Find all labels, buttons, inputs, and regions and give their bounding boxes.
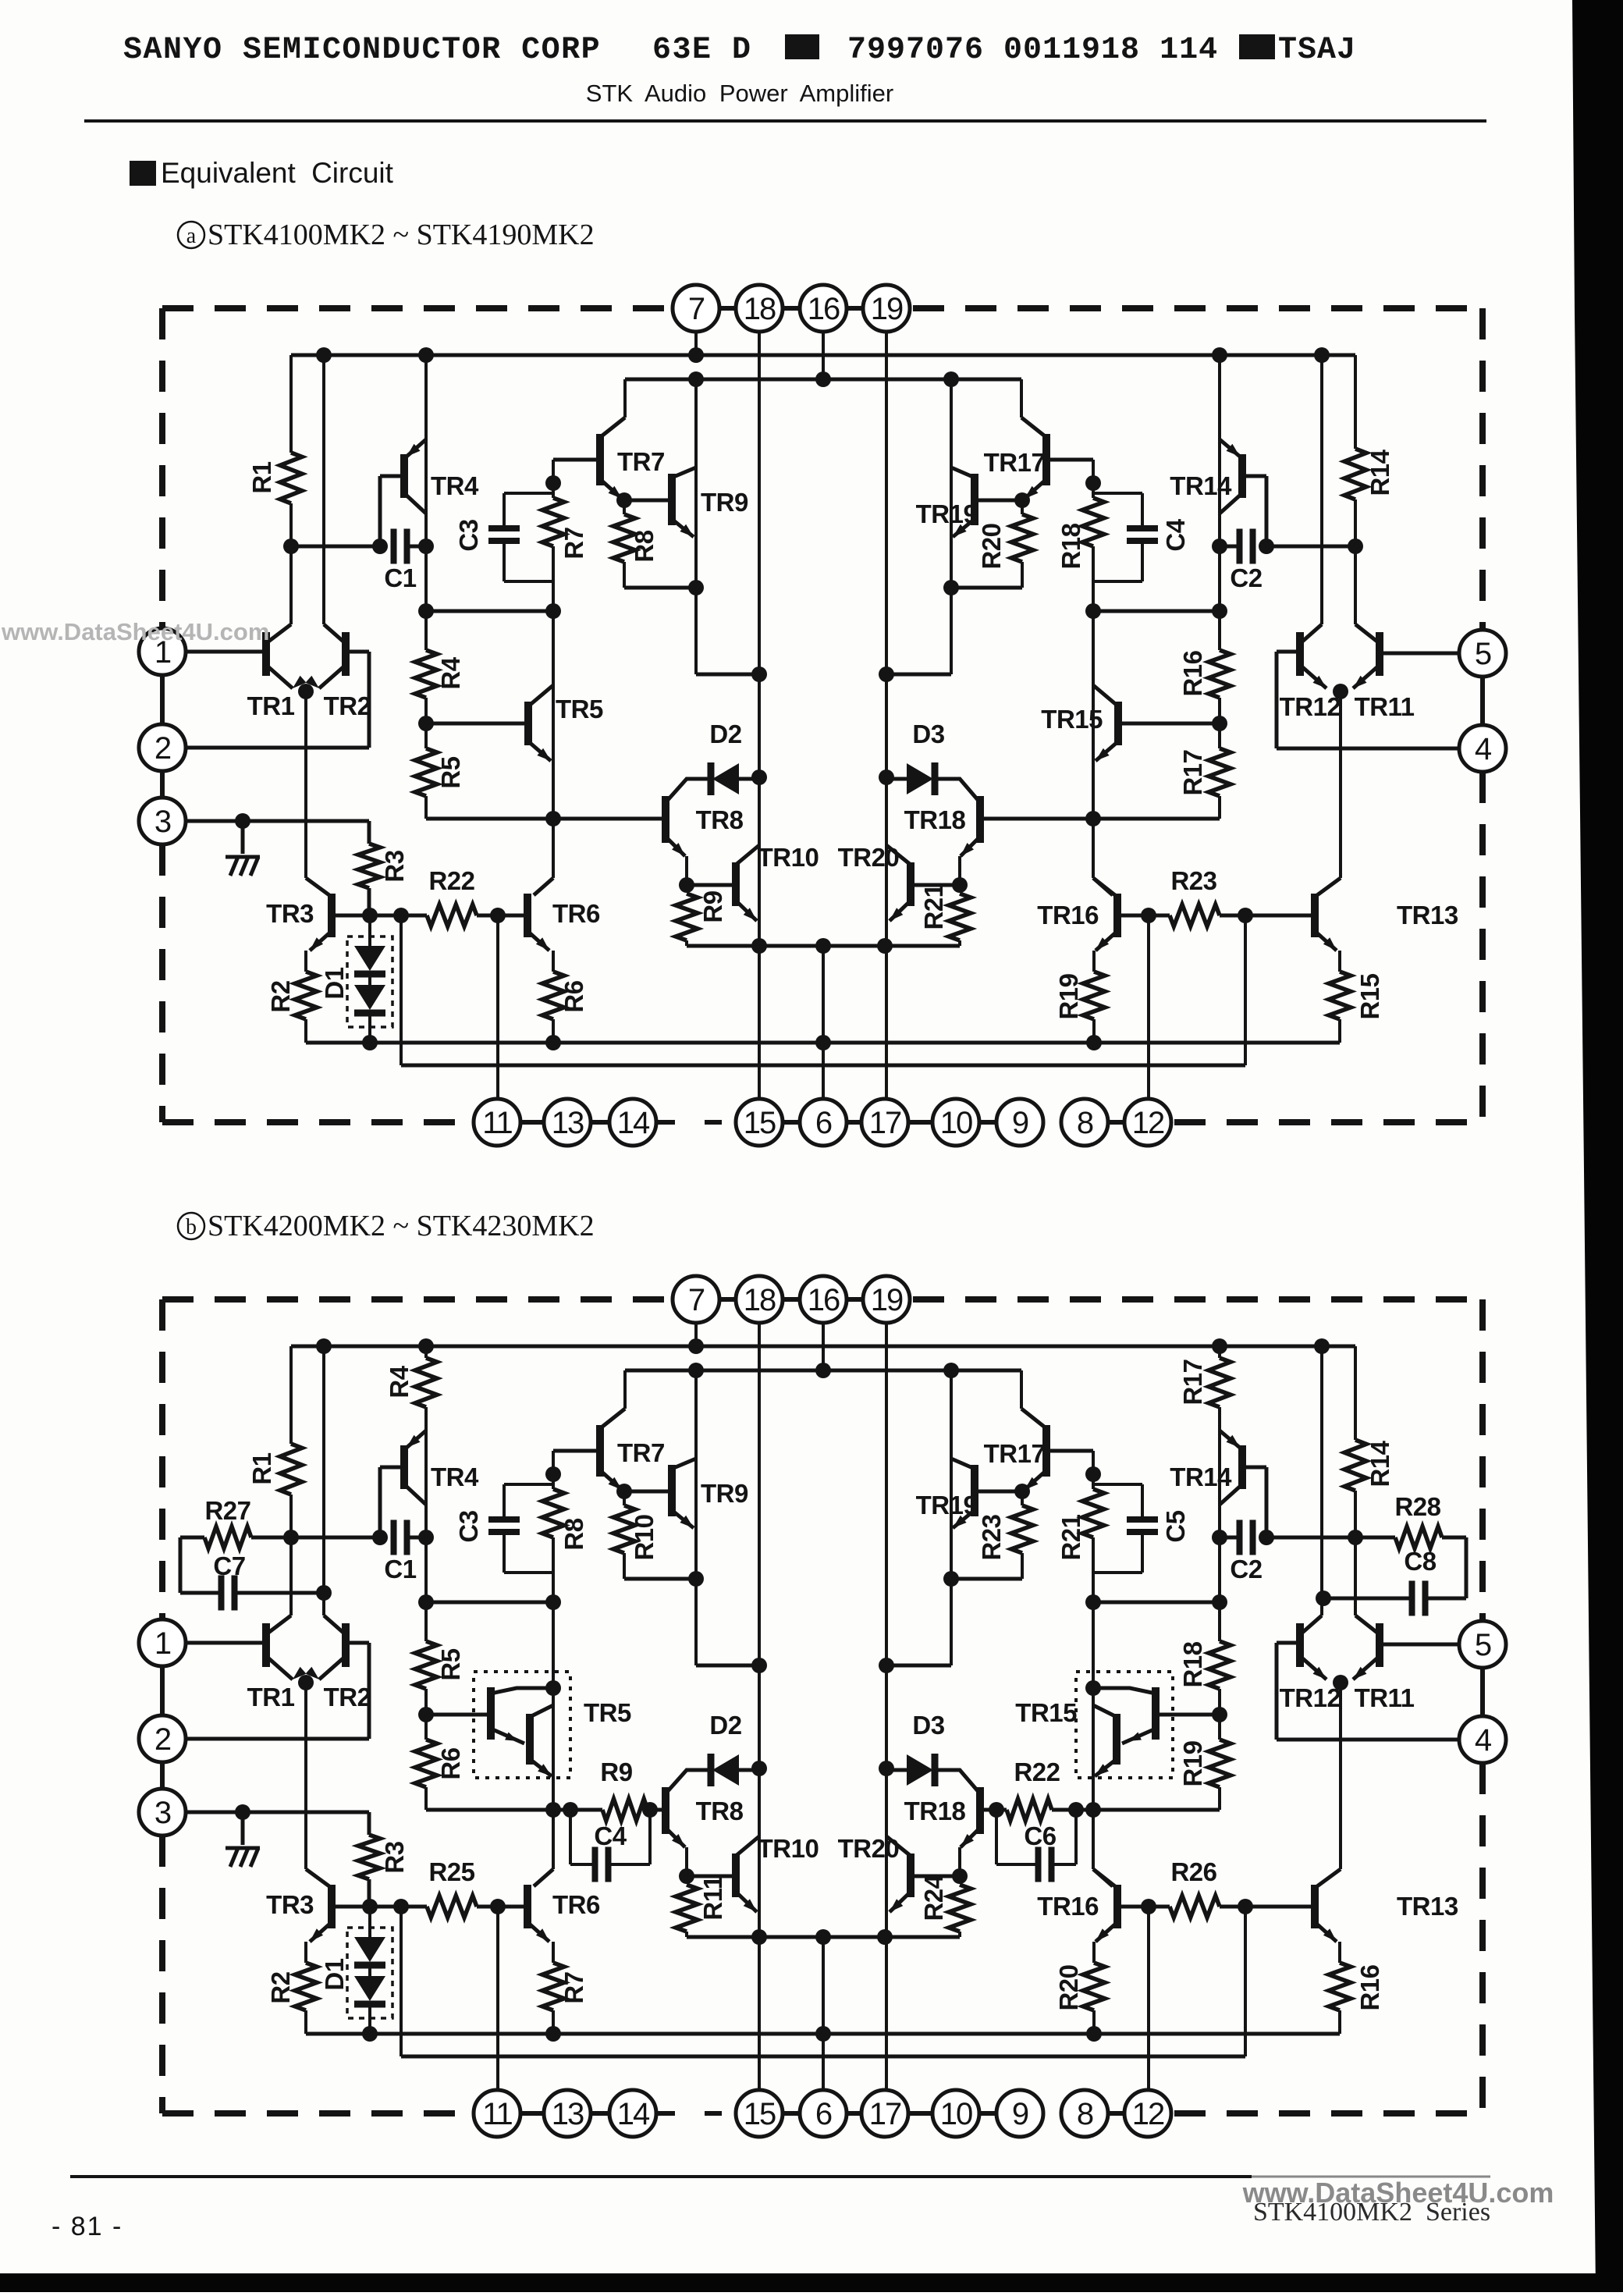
svg-text:- 81 -: - 81 - — [51, 2212, 123, 2241]
svg-text:TR8: TR8 — [696, 805, 744, 834]
svg-text:R19: R19 — [1178, 1740, 1207, 1786]
svg-text:C3: C3 — [454, 519, 483, 551]
svg-text:12: 12 — [1132, 2097, 1164, 2131]
svg-text:TR15: TR15 — [1015, 1698, 1077, 1727]
svg-text:2: 2 — [154, 731, 171, 766]
svg-text:TR3: TR3 — [266, 1890, 314, 1919]
svg-text:D2: D2 — [709, 1711, 741, 1740]
svg-text:16: 16 — [808, 1283, 840, 1317]
svg-text:R19: R19 — [1054, 973, 1083, 1019]
svg-text:C1: C1 — [384, 1555, 416, 1583]
svg-text:10: 10 — [940, 1106, 972, 1140]
svg-text:9: 9 — [1012, 2097, 1028, 2131]
svg-text:R11: R11 — [698, 1875, 727, 1920]
svg-text:6: 6 — [815, 1106, 832, 1140]
svg-text:15: 15 — [744, 2097, 776, 2131]
svg-text:R18: R18 — [1178, 1641, 1207, 1687]
svg-text:TR17: TR17 — [984, 448, 1046, 477]
svg-text:18: 18 — [744, 1283, 776, 1317]
svg-text:TR20: TR20 — [838, 1834, 900, 1863]
svg-text:4: 4 — [1475, 1723, 1492, 1758]
svg-text:TR18: TR18 — [904, 1797, 966, 1825]
svg-text:D2: D2 — [709, 720, 741, 748]
svg-text:R23: R23 — [1170, 866, 1216, 895]
svg-text:R22: R22 — [428, 866, 474, 895]
svg-text:R1: R1 — [247, 1452, 276, 1484]
svg-text:2: 2 — [154, 1722, 171, 1757]
svg-text:TR13: TR13 — [1397, 1892, 1458, 1921]
svg-text:D3: D3 — [912, 1711, 944, 1740]
svg-text:TR5: TR5 — [556, 695, 603, 723]
svg-text:6: 6 — [815, 2097, 832, 2131]
svg-text:R16: R16 — [1178, 650, 1207, 696]
svg-text:17: 17 — [869, 1106, 901, 1140]
svg-text:TR4: TR4 — [431, 1463, 479, 1491]
svg-text:8: 8 — [1077, 2097, 1093, 2131]
svg-text:R22: R22 — [1014, 1758, 1060, 1786]
svg-text:R17: R17 — [1178, 1359, 1207, 1405]
svg-text:R26: R26 — [1170, 1857, 1216, 1886]
svg-text:TR14: TR14 — [1170, 1463, 1232, 1491]
svg-text:C7: C7 — [213, 1551, 245, 1580]
svg-text:TR9: TR9 — [701, 1479, 748, 1508]
svg-text:63E D: 63E D — [652, 33, 752, 68]
svg-text:TR10: TR10 — [758, 843, 819, 872]
svg-text:R25: R25 — [428, 1857, 474, 1886]
svg-text:8: 8 — [1077, 1106, 1093, 1140]
svg-text:R28: R28 — [1394, 1492, 1440, 1521]
svg-text:R7: R7 — [559, 527, 588, 559]
svg-text:9: 9 — [1012, 1106, 1028, 1140]
svg-text:3: 3 — [154, 1796, 171, 1830]
svg-text:TR14: TR14 — [1170, 471, 1232, 500]
svg-text:R16: R16 — [1355, 1964, 1384, 2010]
svg-text:TR11: TR11 — [1355, 1683, 1415, 1712]
svg-text:R8: R8 — [630, 530, 659, 562]
svg-text:TR2: TR2 — [324, 1683, 371, 1711]
svg-text:R9: R9 — [698, 890, 727, 922]
svg-text:a: a — [186, 224, 197, 248]
svg-text:C6: C6 — [1024, 1822, 1056, 1850]
svg-text:TR4: TR4 — [431, 471, 479, 500]
svg-text:TR10: TR10 — [758, 1834, 819, 1863]
svg-text:R6: R6 — [436, 1747, 465, 1779]
svg-text:R14: R14 — [1366, 1440, 1394, 1487]
svg-text:TR7: TR7 — [617, 447, 665, 476]
svg-text:TR19: TR19 — [916, 499, 978, 528]
svg-text:7: 7 — [688, 292, 705, 326]
svg-text:R14: R14 — [1366, 449, 1394, 496]
svg-text:14: 14 — [617, 1106, 650, 1140]
svg-text:TR19: TR19 — [916, 1491, 978, 1519]
svg-text:11: 11 — [482, 2097, 512, 2131]
svg-text:R23: R23 — [977, 1514, 1006, 1560]
svg-text:TR18: TR18 — [904, 805, 966, 834]
svg-text:4: 4 — [1475, 732, 1492, 766]
svg-text:C5: C5 — [1161, 1510, 1190, 1542]
svg-text:R5: R5 — [436, 1648, 465, 1680]
svg-text:TR6: TR6 — [552, 1890, 600, 1919]
svg-text:STK4100MK2 ~ STK4190MK2: STK4100MK2 ~ STK4190MK2 — [208, 219, 595, 251]
svg-text:R3: R3 — [380, 850, 409, 882]
svg-text:17: 17 — [869, 2097, 901, 2131]
svg-text:13: 13 — [552, 2097, 584, 2131]
svg-text:R3: R3 — [380, 1841, 409, 1873]
svg-text:C2: C2 — [1230, 1555, 1262, 1583]
svg-text:TR12: TR12 — [1280, 1683, 1341, 1712]
svg-text:TR17: TR17 — [984, 1439, 1046, 1468]
svg-text:19: 19 — [871, 1283, 903, 1317]
svg-text:R24: R24 — [919, 1874, 948, 1921]
svg-text:R15: R15 — [1355, 973, 1384, 1019]
svg-text:C1: C1 — [384, 563, 416, 592]
svg-text:R1: R1 — [247, 461, 276, 493]
svg-text:SANYO SEMICONDUCTOR CORP: SANYO SEMICONDUCTOR CORP — [123, 33, 601, 68]
svg-text:C3: C3 — [454, 1510, 483, 1542]
svg-text:5: 5 — [1475, 637, 1491, 671]
svg-text:TSAJ: TSAJ — [1278, 33, 1356, 68]
svg-text:R5: R5 — [436, 756, 465, 788]
svg-text:STK Audio Power Amplifier: STK Audio Power Amplifier — [586, 80, 893, 107]
svg-text:STK4200MK2 ~ STK4230MK2: STK4200MK2 ~ STK4230MK2 — [208, 1210, 595, 1242]
svg-text:R2: R2 — [266, 980, 295, 1012]
svg-text:Equivalent Circuit: Equivalent Circuit — [161, 157, 394, 189]
svg-text:7: 7 — [688, 1283, 705, 1317]
svg-text:C2: C2 — [1230, 563, 1262, 592]
svg-text:TR11: TR11 — [1355, 692, 1415, 721]
svg-text:TR2: TR2 — [324, 691, 371, 720]
svg-text:13: 13 — [552, 1106, 584, 1140]
svg-text:R2: R2 — [266, 1971, 295, 2003]
svg-text:TR16: TR16 — [1037, 1892, 1099, 1921]
svg-text:b: b — [186, 1215, 197, 1239]
svg-text:TR6: TR6 — [552, 899, 600, 928]
svg-text:D1: D1 — [320, 967, 349, 999]
svg-text:R9: R9 — [600, 1758, 632, 1786]
svg-text:C4: C4 — [594, 1822, 627, 1850]
svg-text:R21: R21 — [1057, 1514, 1085, 1560]
svg-text:R4: R4 — [436, 656, 465, 689]
svg-text:R18: R18 — [1057, 523, 1085, 569]
svg-text:C8: C8 — [1404, 1547, 1436, 1576]
svg-text:5: 5 — [1475, 1628, 1491, 1662]
svg-text:R27: R27 — [204, 1496, 250, 1525]
svg-text:D1: D1 — [320, 1958, 349, 1990]
svg-text:TR12: TR12 — [1280, 692, 1341, 721]
svg-text:R4: R4 — [385, 1365, 414, 1398]
svg-text:19: 19 — [871, 292, 903, 326]
svg-text:R6: R6 — [559, 980, 588, 1012]
svg-text:TR3: TR3 — [266, 899, 314, 928]
svg-text:18: 18 — [744, 292, 776, 326]
svg-text:TR1: TR1 — [247, 1683, 295, 1711]
svg-text:R7: R7 — [559, 1971, 588, 2003]
svg-text:14: 14 — [617, 2097, 650, 2131]
svg-text:16: 16 — [808, 292, 840, 326]
svg-text:1: 1 — [154, 1626, 171, 1661]
svg-text:D3: D3 — [912, 720, 944, 748]
svg-text:TR8: TR8 — [696, 1797, 744, 1825]
svg-text:TR7: TR7 — [617, 1438, 665, 1467]
svg-text:TR20: TR20 — [838, 843, 900, 872]
svg-text:TR9: TR9 — [701, 488, 748, 517]
svg-text:TR1: TR1 — [247, 691, 295, 720]
svg-text:10: 10 — [940, 2097, 972, 2131]
svg-text:TR5: TR5 — [584, 1698, 631, 1727]
svg-text:C4: C4 — [1161, 518, 1190, 551]
svg-text:R20: R20 — [977, 523, 1006, 569]
svg-text:11: 11 — [482, 1106, 512, 1140]
svg-text:R21: R21 — [919, 883, 948, 929]
svg-text:TR13: TR13 — [1397, 901, 1458, 929]
svg-text:R20: R20 — [1054, 1964, 1083, 2010]
svg-text:15: 15 — [744, 1106, 776, 1140]
svg-text:12: 12 — [1132, 1106, 1164, 1140]
svg-text:R8: R8 — [559, 1518, 588, 1550]
svg-text:TR16: TR16 — [1037, 901, 1099, 929]
svg-text:R17: R17 — [1178, 749, 1207, 795]
svg-text:STK4100MK2 Series: STK4100MK2 Series — [1253, 2198, 1490, 2227]
svg-text:R10: R10 — [630, 1514, 659, 1560]
svg-text:3: 3 — [154, 805, 171, 839]
svg-text:7997076 0011918 114: 7997076 0011918 114 — [847, 33, 1218, 68]
svg-text:www.DataSheet4U.com: www.DataSheet4U.com — [1, 618, 269, 645]
